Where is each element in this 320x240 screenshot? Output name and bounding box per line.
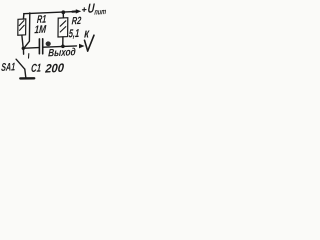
wire parallel branch — [25, 13, 30, 47]
switch SA1 contact tick — [28, 54, 30, 58]
svg-text:R2: R2 — [71, 15, 81, 27]
node C junction dot on top rail — [61, 10, 65, 14]
wire C1 to output — [44, 46, 77, 47]
resistor R2 top lead — [62, 14, 64, 18]
svg-text:5,1: 5,1 — [68, 28, 79, 40]
ground bar — [20, 77, 34, 79]
check mark V — [85, 35, 95, 51]
svg-text:C1: C1 — [31, 63, 42, 75]
capacitor C1 left plate — [38, 39, 40, 54]
ink blot artifact — [46, 41, 51, 46]
capacitor C1 right plate — [42, 39, 44, 54]
power arrow — [76, 9, 81, 13]
svg-text:Выход: Выход — [48, 46, 77, 59]
node A junction dot — [22, 47, 25, 50]
switch SA1 fixed lead — [22, 48, 24, 54]
resistor R1 hatch marks — [19, 21, 24, 31]
resistor R2 body — [58, 18, 68, 37]
svg-text:пит: пит — [94, 7, 106, 17]
wire top rail — [24, 11, 78, 13]
output arrow — [79, 44, 85, 49]
switch SA1 bottom lead — [25, 69, 26, 77]
node B junction dot under R2 — [61, 45, 65, 49]
svg-text:SA1: SA1 — [1, 61, 16, 74]
svg-text:1М: 1М — [34, 24, 47, 37]
svg-text:200: 200 — [44, 61, 65, 76]
switch SA1 lever — [16, 59, 25, 69]
resistor R1 body — [18, 19, 26, 35]
resistor R1 top lead — [22, 14, 25, 19]
wire node A to C1 — [25, 47, 39, 50]
label +Uпит plus sign — [82, 8, 86, 12]
resistor R2 bottom lead — [62, 37, 64, 45]
resistor R1 bottom lead — [22, 36, 23, 47]
svg-text:к: к — [84, 25, 91, 40]
resistor R2 hatch marks — [60, 21, 66, 32]
